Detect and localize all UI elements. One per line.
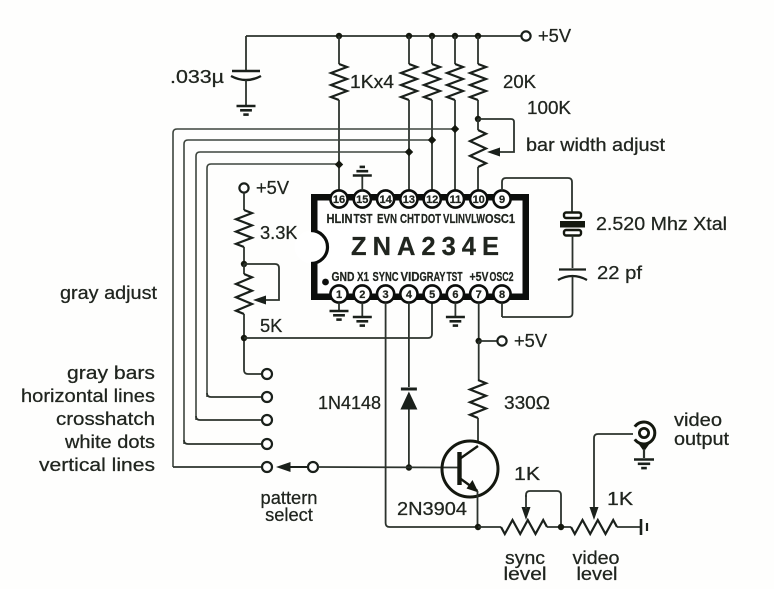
wire bus white-dots net (pin12 DOT) xyxy=(184,140,432,444)
svg-text:330Ω: 330Ω xyxy=(504,392,550,413)
pin 8 xyxy=(493,285,510,302)
pin 1 xyxy=(330,285,347,302)
terminal white dots xyxy=(262,439,272,449)
svg-text:14: 14 xyxy=(379,194,392,206)
svg-text:3.3K: 3.3K xyxy=(260,222,298,243)
svg-text:video: video xyxy=(674,409,722,430)
wire horizontal-lines terminal hook xyxy=(207,393,262,397)
resistor R4 1K xyxy=(454,36,456,64)
capacitor C1 .033u xyxy=(245,36,247,71)
pin 6 xyxy=(447,285,464,302)
svg-text:4: 4 xyxy=(406,289,413,301)
node rail junctions xyxy=(336,33,342,39)
resistor R7 330ohm xyxy=(478,341,480,380)
IC U1 ZNA234E body xyxy=(311,194,529,300)
pin 12 xyxy=(424,190,441,207)
svg-text:horizontal lines: horizontal lines xyxy=(21,385,155,406)
svg-text:100K: 100K xyxy=(527,97,571,118)
svg-text:TST: TST xyxy=(447,270,463,284)
svg-text:1K: 1K xyxy=(514,463,540,484)
resistor R6 3.3K xyxy=(243,193,245,210)
svg-text:OSC1: OSC1 xyxy=(485,212,515,226)
pin 11 xyxy=(447,190,464,207)
node emitter junction xyxy=(475,524,481,530)
wire C2 to pin8 xyxy=(502,277,573,318)
svg-text:2: 2 xyxy=(359,289,365,301)
ground video output xyxy=(634,458,654,461)
pin 15 xyxy=(354,190,371,207)
wire bus horizontal-lines net (pin16 HLIN) xyxy=(207,164,339,397)
resistor R1 1K (1Kx4) xyxy=(338,36,340,64)
svg-text:VLIN: VLIN xyxy=(443,212,465,226)
svg-text:+5V: +5V xyxy=(514,330,548,351)
ground below C1 xyxy=(237,105,256,108)
svg-text:3: 3 xyxy=(383,289,389,301)
ground pin 1 xyxy=(338,303,340,311)
wire VR1 wiper bracket xyxy=(478,119,514,152)
potentiometer VR2 5K gray adjust xyxy=(243,264,245,274)
+5V terminal mid xyxy=(497,336,506,345)
pin 7 xyxy=(470,285,487,302)
resistor R2 1K xyxy=(408,36,410,64)
capacitor C2 22pf xyxy=(559,268,586,270)
pin 3 xyxy=(377,285,394,302)
svg-text:GND: GND xyxy=(332,270,355,284)
wire pin3 sync run xyxy=(386,303,478,528)
pin 2 xyxy=(354,285,371,302)
svg-text:2N3904: 2N3904 xyxy=(397,498,467,519)
svg-text:TST: TST xyxy=(354,212,373,226)
terminal gray bars xyxy=(262,369,272,379)
pin 14 xyxy=(377,190,394,207)
transistor Q1 2N3904 xyxy=(442,441,498,497)
svg-text:VLW: VLW xyxy=(465,212,485,226)
svg-text:1Kx4: 1Kx4 xyxy=(350,71,394,92)
svg-text:5: 5 xyxy=(429,289,435,301)
svg-text:+5V: +5V xyxy=(538,25,572,46)
wire gray net to pin5 xyxy=(244,303,432,338)
node R6/VR2 junction xyxy=(241,261,247,267)
wire base net xyxy=(318,466,459,469)
wire gray-bars terminal hook xyxy=(244,338,262,374)
svg-text:16: 16 xyxy=(333,194,345,206)
switch SW1 pole xyxy=(308,462,318,472)
wire white-dots terminal hook xyxy=(184,440,262,444)
switch SW1 wiper arrow xyxy=(288,466,307,468)
pin 10 xyxy=(470,190,487,207)
+5V terminal top right xyxy=(521,31,530,40)
svg-text:5K: 5K xyxy=(260,315,282,336)
svg-text:1N4148: 1N4148 xyxy=(318,392,381,413)
terminal horizontal lines xyxy=(262,392,272,402)
svg-text:12: 12 xyxy=(426,194,438,206)
svg-text:white dots: white dots xyxy=(64,431,155,452)
node VR2 bottom junction xyxy=(241,335,247,341)
svg-text:X1: X1 xyxy=(357,270,369,284)
pin 4 xyxy=(400,285,417,302)
svg-text:+5V: +5V xyxy=(470,270,490,284)
potentiometer VR3 1K sync level xyxy=(501,520,547,534)
ground above pin 15 (inverted) xyxy=(361,176,363,191)
pin 9 xyxy=(493,190,510,207)
svg-text:vertical lines: vertical lines xyxy=(39,454,155,475)
wire crosshatch terminal hook xyxy=(196,416,262,420)
svg-text:7: 7 xyxy=(476,289,482,301)
svg-text:gray bars: gray bars xyxy=(67,362,155,383)
wire bus vertical-lines net (pin11 VLIN) xyxy=(173,129,455,467)
svg-text:bar width adjust: bar width adjust xyxy=(526,134,665,155)
svg-text:15: 15 xyxy=(356,194,368,206)
IC U1 pin-1 dot xyxy=(322,279,329,286)
svg-text:1K: 1K xyxy=(607,488,633,509)
potentiometer VR1 100K bar width adjust xyxy=(475,116,481,122)
ground pin 2 xyxy=(361,303,363,317)
svg-text:8: 8 xyxy=(499,289,505,301)
+5V terminal gray chain xyxy=(239,183,248,192)
svg-text:level: level xyxy=(504,563,547,584)
pin 16 xyxy=(330,190,347,207)
svg-text:13: 13 xyxy=(403,194,415,206)
svg-text:EVN: EVN xyxy=(377,212,397,226)
wire VR3 wiper bracket xyxy=(526,491,561,527)
svg-text:SYNC: SYNC xyxy=(373,270,399,284)
svg-text:select: select xyxy=(265,504,313,525)
svg-text:OSC2: OSC2 xyxy=(490,270,514,284)
switch SW1 pattern select contact xyxy=(262,462,272,472)
connector J1 video output xyxy=(635,422,655,444)
svg-text:10: 10 xyxy=(473,194,485,206)
svg-text:6: 6 xyxy=(452,289,458,301)
diode D1 1N4148 xyxy=(401,388,417,391)
svg-text:GRAY: GRAY xyxy=(420,270,446,284)
wire pin4 to diode xyxy=(408,303,410,388)
svg-text:DOT: DOT xyxy=(421,212,441,226)
potentiometer VR4 1K video level xyxy=(571,520,617,534)
node pin7 junction xyxy=(476,338,482,344)
ground pin 6 xyxy=(454,303,456,317)
node diode/base junction xyxy=(406,464,412,470)
svg-text:22 pf: 22 pf xyxy=(597,262,643,283)
wire vertical-lines to switch xyxy=(173,466,262,468)
wire pin9 to crystal xyxy=(502,178,572,212)
svg-text:11: 11 xyxy=(450,194,462,206)
chassis terminator right end xyxy=(640,519,643,535)
wire VR4 wiper to video output xyxy=(594,434,633,509)
svg-text:HLIN: HLIN xyxy=(327,212,353,226)
wire pin7 down xyxy=(478,303,480,342)
svg-text:20K: 20K xyxy=(503,71,536,92)
svg-text:CHT: CHT xyxy=(400,212,420,226)
svg-text:gray adjust: gray adjust xyxy=(60,282,157,303)
pin 5 xyxy=(424,285,441,302)
wire crystal to C2 xyxy=(572,236,574,269)
resistor R3 1K xyxy=(431,36,433,64)
svg-text:2.520 Mhz Xtal: 2.520 Mhz Xtal xyxy=(596,213,727,234)
wire VR2 wiper bracket xyxy=(244,264,279,300)
svg-text:output: output xyxy=(674,428,729,449)
svg-text:9: 9 xyxy=(499,194,505,206)
terminal crosshatch xyxy=(262,415,272,425)
wire bus crosshatch net (pin13 CHT) xyxy=(196,152,409,420)
wire top +5V rail xyxy=(246,35,521,37)
IC U1 notch xyxy=(295,231,328,264)
svg-text:VID: VID xyxy=(401,270,420,284)
svg-text:.033µ: .033µ xyxy=(170,66,225,87)
svg-text:crosshatch: crosshatch xyxy=(56,408,155,429)
pin 13 xyxy=(400,190,417,207)
resistor R5 20K xyxy=(477,36,479,64)
svg-text:+5V: +5V xyxy=(256,177,290,198)
crystal Y1 2.520 MHz xyxy=(564,213,581,219)
svg-text:level: level xyxy=(577,563,618,584)
svg-text:1: 1 xyxy=(336,289,342,301)
